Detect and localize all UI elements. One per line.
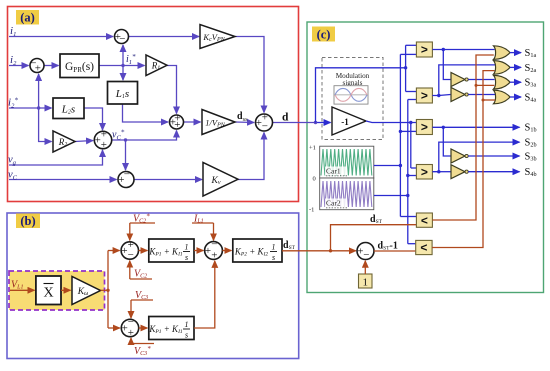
panel (b) border: [7, 213, 299, 359]
summing junction sumA1 (i1 compare): [115, 30, 129, 44]
comparator box6 <: [416, 240, 432, 254]
summing junction sumA5 (vC compare): [118, 172, 134, 188]
wire OR2 output S2a: [510, 66, 521, 68]
wire box3 branch to inverter1b: [443, 127, 450, 156]
wire box4 output to junction: [432, 142, 519, 172]
svg-text:s: s: [185, 253, 188, 262]
carrier1 box: [320, 146, 374, 178]
wire sumC1 output dST-1 to box6: [374, 250, 415, 252]
wire dST into panel c: [282, 250, 356, 252]
wire d output of sumA6 to panel c: [273, 122, 316, 124]
wire carrier1 output: [374, 165, 401, 167]
label VC3 ref lead: [131, 343, 154, 345]
junction dot box6 line at OR4: [482, 99, 485, 102]
block L1s: [108, 82, 138, 105]
wire carrier2 output: [374, 195, 408, 197]
wire box2 output to junction: [432, 65, 495, 96]
panel (a) border: [8, 7, 299, 202]
wire Gpr output to node i1ref: [99, 65, 123, 67]
wire OR4 output S4a: [510, 96, 521, 98]
bus v vertical: [405, 45, 407, 91]
junction dot i2ref: [37, 106, 40, 109]
wire bus to comparator4 inputs: [411, 167, 416, 169]
modulation sine mini box: [334, 86, 368, 104]
OR gate 2: [494, 61, 511, 75]
wire node i1ref down to L1s: [122, 66, 124, 81]
junction dot box4 branch: [437, 170, 440, 173]
block PI regulator 1: [149, 239, 194, 262]
block PI regulator 3: [149, 317, 194, 340]
wire R1 output to sumA4 top: [167, 66, 177, 114]
OR gate 1: [494, 46, 511, 60]
bus car2 vertical: [407, 100, 409, 244]
wire L2s output to sumA3 top: [84, 108, 103, 130]
wire bus to comparator3 input: [400, 130, 416, 132]
wire box1 output to OR1: [432, 49, 494, 51]
svg-text:Car1: Car1: [326, 167, 341, 176]
label VC3 lead: [131, 299, 153, 301]
wire 1/Vpn to sumA6 (d_ss): [235, 121, 254, 124]
svg-text:<: <: [421, 213, 428, 227]
summing junction sumB1: [121, 242, 138, 259]
wire box6 output up to OR2 and OR4: [432, 71, 494, 248]
wire OR1 output S1a: [510, 52, 521, 54]
svg-text:−: −: [363, 249, 369, 261]
comparator box4 >: [416, 165, 432, 180]
svg-text:s: s: [272, 253, 275, 262]
OR gate 4: [494, 90, 511, 104]
summing junction sumB3: [121, 319, 138, 336]
junction dot dST branch: [329, 249, 332, 252]
wire box5 output up to OR1 and OR3: [432, 55, 493, 220]
wire bus to comparator5 input: [400, 216, 416, 218]
junction dots on buses: [399, 130, 402, 133]
block constant 1: [359, 274, 373, 288]
svg-text:+: +: [128, 327, 134, 339]
block Gpr(s): [60, 54, 99, 78]
wire -1 output to box3: [366, 121, 416, 123]
svg-text:1: 1: [185, 243, 189, 252]
svg-text:>: >: [421, 165, 428, 179]
wire sumA4 to 1/Vpn: [184, 121, 201, 123]
wire i2ref node down to R2: [39, 108, 52, 142]
wire vC input to sumA5: [9, 179, 117, 181]
summing junction sumA3 (vC reference): [94, 131, 111, 148]
wire inverter1b output S3b: [468, 155, 519, 157]
summing junction sumA2 (i2 compare): [30, 59, 44, 73]
junction dot i1ref: [121, 64, 124, 67]
carrier2 waveform: [321, 181, 372, 207]
svg-text:Car2: Car2: [326, 199, 341, 208]
modulation sine wave blue: [335, 88, 367, 101]
svg-text:−: −: [124, 168, 130, 180]
gain triangle Komega: [72, 277, 101, 305]
wire d input into panel c: [316, 122, 331, 124]
carrier1 waveform: [321, 149, 372, 176]
wire bus to comparator6 input: [408, 243, 416, 245]
svg-text:+1: +1: [309, 145, 316, 152]
wire vg input to sumA3 bottom: [9, 150, 103, 165]
wire Komega output to bus: [101, 289, 109, 291]
svg-text:−: −: [119, 33, 125, 45]
wire dST branch up to box5: [331, 225, 417, 251]
wire bus to sumB1: [108, 250, 120, 252]
inverter U1b: [451, 149, 465, 163]
summing junction sumB2: [205, 242, 223, 260]
wire VL1 input: [10, 289, 35, 291]
svg-text:(c): (c): [317, 28, 331, 42]
wire node i1ref up to sumA1: [122, 45, 124, 66]
wire v branch up and right to bus: [316, 68, 406, 123]
wire PI3 output to sumB2 bottom: [194, 261, 215, 328]
junction dot box2 branch: [437, 94, 440, 97]
wire L1s output to sumA4: [123, 104, 169, 122]
junction dot d node: [314, 121, 317, 124]
label (a): [16, 10, 39, 25]
bus vertical panel b: [107, 251, 109, 291]
comparator box5 <: [416, 213, 432, 227]
wire inverter2b output S4b: [468, 171, 519, 173]
svg-text:>: >: [421, 43, 428, 57]
junction dot box3 branch: [442, 126, 445, 129]
junction dot box5 line at OR3: [475, 84, 478, 87]
gain triangle Kv: [203, 163, 238, 197]
OR gate 3: [494, 75, 511, 89]
wire sumA5 to Kv: [134, 179, 202, 181]
modulation signals dashed box: [322, 58, 383, 140]
gain triangle R2: [53, 131, 75, 152]
gain triangle R1: [146, 55, 167, 76]
summing junction sumC1: [357, 243, 374, 260]
carrier2 label: [325, 199, 347, 208]
wire box3 output S1b: [432, 126, 519, 128]
svg-text:−: −: [211, 238, 217, 250]
wire Kv output to sumA6 bottom: [238, 133, 264, 180]
junction dot Komega bus: [106, 289, 109, 292]
block X average: [36, 276, 61, 305]
wire sumA3 vCref line to sumA4 bottom: [112, 131, 177, 141]
svg-text:1: 1: [185, 320, 189, 329]
wire X to Komega: [61, 289, 71, 291]
label (c): [312, 27, 335, 42]
dashed averaging box: [9, 271, 105, 310]
wire bus to comparator1 inputs: [406, 44, 416, 46]
wire node i1ref to R1: [123, 65, 145, 67]
junction dot vCref: [124, 138, 127, 141]
label IL1 lead: [192, 222, 214, 224]
wire i2ref input: [9, 107, 52, 109]
svg-text:+: +: [118, 174, 124, 186]
wire inverter2 to OR4: [468, 94, 495, 96]
svg-text:+: +: [101, 139, 107, 151]
modulation sine wave red: [335, 88, 367, 101]
wire sumB2 to PI box 2: [222, 250, 231, 252]
bus car1 vertical: [399, 54, 401, 216]
svg-text:>: >: [421, 89, 428, 103]
svg-text:-1: -1: [341, 117, 349, 127]
label VC2 ref lead: [130, 222, 155, 224]
wire box2 junction to inverter2: [439, 95, 451, 96]
svg-text:d: d: [282, 112, 289, 124]
block L2s: [53, 98, 84, 119]
wire bus to sumB3: [108, 327, 120, 329]
inverter U2a: [451, 88, 465, 102]
svg-text:X: X: [43, 286, 53, 301]
gain triangle 1/Vpn: [202, 110, 235, 135]
carrier2 box: [320, 178, 374, 210]
wire i1 input: [9, 36, 113, 38]
wire sumB3 to PI box 3: [139, 327, 148, 329]
svg-text:−: −: [262, 121, 268, 133]
svg-text:KP1 + KI1: KP1 + KI1: [148, 324, 183, 335]
wire sumA1 to KcVpn: [129, 36, 200, 38]
wire OR3 output S3a: [510, 81, 521, 83]
carrier1 label: [325, 167, 347, 176]
svg-text:0: 0: [313, 176, 316, 183]
svg-text:KP1 + KI1: KP1 + KI1: [148, 247, 183, 258]
svg-text:+: +: [35, 63, 41, 75]
inverter triangle -1: [332, 107, 366, 135]
wire sumB1 to PI box 1: [139, 250, 148, 252]
summing junction sumA6 (final d): [256, 114, 273, 131]
svg-text:+: +: [205, 245, 211, 257]
svg-text:1: 1: [362, 277, 368, 289]
wire R2 output to sumA3: [75, 141, 93, 142]
svg-text:KP2 + KI2: KP2 + KI2: [234, 247, 269, 258]
svg-text:+: +: [174, 119, 180, 131]
wire i2 input: [9, 65, 29, 67]
wire vCref branch down to sumA5 top: [125, 140, 127, 170]
wire constant 1 to sumC1: [364, 261, 366, 274]
block PI regulator 2: [233, 239, 282, 262]
svg-text:(a): (a): [20, 11, 35, 25]
wire bus to comparator2 inputs: [406, 91, 416, 93]
wire box1 branch to inverter1: [443, 50, 450, 80]
summing junction sumA4 (d_ss sum): [170, 115, 184, 129]
comparator box1 >: [416, 42, 432, 57]
svg-text:>: >: [421, 120, 428, 134]
svg-text:<: <: [420, 241, 427, 255]
wire inverter1 to OR3: [468, 79, 494, 81]
svg-text:−: −: [128, 249, 134, 261]
gain triangle KcVpn: [200, 25, 235, 49]
svg-text:-1: -1: [309, 207, 314, 214]
inverter U2b: [451, 165, 465, 179]
wire sumA2 to Gpr: [45, 65, 59, 67]
svg-text:(b): (b): [20, 214, 35, 228]
bus -v vertical: [410, 123, 412, 169]
wire PI1 to sumB2: [194, 250, 203, 252]
wire box4 junction to inverter2b: [439, 171, 451, 173]
wire KcVpn output to sumA6 top: [235, 37, 264, 113]
comparator box3 >: [416, 120, 432, 135]
svg-text:+: +: [211, 250, 217, 262]
comparator box2 >: [416, 88, 432, 103]
svg-text:s: s: [185, 331, 188, 340]
wire i2ref node up to sumA2 bottom: [38, 74, 40, 108]
label VC2 lead: [130, 278, 152, 280]
inverter U1a: [451, 73, 465, 87]
svg-text:1: 1: [272, 243, 276, 252]
junction dot box1 branch: [442, 48, 445, 51]
label (b): [16, 214, 40, 229]
panel (c) border: [307, 22, 544, 293]
